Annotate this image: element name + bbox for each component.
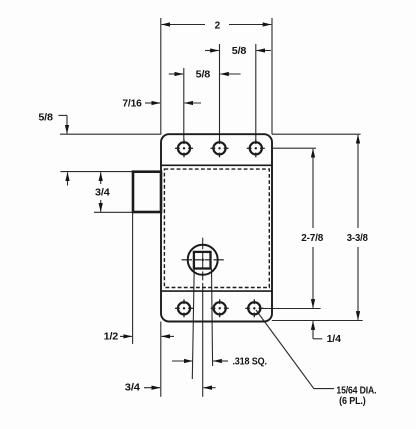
svg-text:1/4: 1/4: [327, 334, 342, 345]
svg-text:5/8: 5/8: [196, 69, 211, 80]
svg-text:3-3/8: 3-3/8: [347, 233, 369, 244]
svg-text:5/8: 5/8: [38, 113, 53, 124]
svg-text:2: 2: [215, 21, 221, 32]
svg-text:3/4: 3/4: [125, 383, 141, 394]
svg-text:(6 PL.): (6 PL.): [339, 396, 366, 407]
svg-text:15/64 DIA.: 15/64 DIA.: [336, 385, 376, 396]
svg-text:3/4: 3/4: [95, 188, 110, 199]
svg-text:2-7/8: 2-7/8: [301, 233, 324, 244]
svg-text:7/16: 7/16: [122, 98, 142, 109]
svg-text:.318 SQ.: .318 SQ.: [232, 357, 267, 368]
svg-text:5/8: 5/8: [232, 46, 247, 57]
svg-text:1/2: 1/2: [104, 332, 119, 343]
